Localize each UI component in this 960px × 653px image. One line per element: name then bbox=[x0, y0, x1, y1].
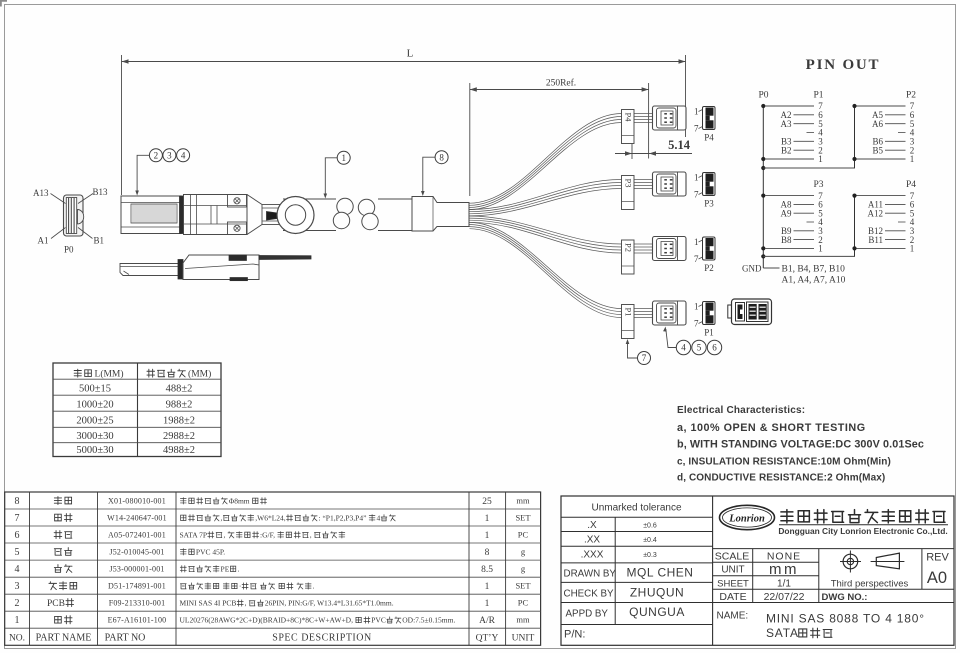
svg-text:P3: P3 bbox=[704, 199, 714, 209]
mini SAS connector screw tab bottom bbox=[228, 222, 247, 235]
svg-text:7: 7 bbox=[642, 353, 647, 363]
SATA connector P4 top view bbox=[653, 106, 687, 130]
mini SAS connector dark separator bbox=[180, 196, 184, 234]
pinout P1 pin1 wire bbox=[765, 158, 814, 160]
latch view top grip bbox=[229, 255, 247, 261]
svg-text:B11: B11 bbox=[868, 235, 883, 245]
svg-text:MQL CHEN: MQL CHEN bbox=[627, 566, 694, 580]
svg-text:7: 7 bbox=[694, 254, 699, 264]
dimension L line with arrows bbox=[122, 61, 686, 63]
svg-text:NAME:: NAME: bbox=[717, 611, 749, 622]
svg-text:.XX: .XX bbox=[584, 535, 600, 546]
svg-text:1: 1 bbox=[818, 154, 823, 164]
svg-text:SPEC DESCRIPTION: SPEC DESCRIPTION bbox=[272, 633, 371, 644]
svg-text:8: 8 bbox=[15, 496, 20, 507]
callout balloon 6 bbox=[707, 340, 721, 354]
svg-text:,: , bbox=[223, 531, 225, 540]
callout balloon 2 bbox=[149, 149, 162, 162]
SATA plug front view detail bbox=[728, 305, 733, 318]
svg-text:,: , bbox=[221, 514, 223, 523]
svg-text:PC: PC bbox=[518, 530, 529, 540]
svg-text:NO.: NO. bbox=[9, 634, 25, 644]
svg-text:OD:7.5±0.15mm.: OD:7.5±0.15mm. bbox=[402, 616, 455, 625]
svg-text:PIN OUT: PIN OUT bbox=[806, 57, 881, 73]
pinout P2 pin7 wire bbox=[857, 105, 906, 107]
length table frame bbox=[53, 363, 221, 457]
svg-text:4988±2: 4988±2 bbox=[163, 445, 195, 456]
svg-text:8: 8 bbox=[485, 548, 490, 558]
callout balloon 7 bbox=[638, 352, 651, 365]
marker flag P4 bbox=[622, 110, 635, 144]
pinout GND tie wire bbox=[763, 267, 779, 269]
dimension 250Ref extension line left bbox=[469, 83, 471, 196]
svg-text:A05-072401-001: A05-072401-001 bbox=[108, 531, 166, 540]
connector P0 pin A13 leader bbox=[51, 194, 66, 204]
svg-text:A0: A0 bbox=[927, 569, 947, 587]
pinout P1 pin7 wire bbox=[765, 105, 814, 107]
mini SAS connector screw tab top bbox=[228, 195, 247, 208]
svg-text:1: 1 bbox=[694, 173, 699, 183]
svg-text:P2: P2 bbox=[704, 263, 714, 273]
svg-text::G/F,: :G/F, bbox=[260, 531, 275, 540]
pinout P4 pin1 wire bbox=[857, 247, 906, 249]
cable break symbol bbox=[336, 194, 378, 235]
svg-text:±0.4: ±0.4 bbox=[643, 537, 657, 544]
svg-text:B1: B1 bbox=[94, 236, 105, 246]
svg-text:B5: B5 bbox=[872, 145, 883, 155]
svg-text:Dongguan City Lonrion Electron: Dongguan City Lonrion Electronic Co.,Ltd… bbox=[778, 526, 947, 536]
svg-text:A1, A4, A7, A10: A1, A4, A7, A10 bbox=[782, 275, 846, 285]
svg-text:DATE: DATE bbox=[719, 591, 746, 603]
pinout junction dots on P0 bus bbox=[761, 104, 765, 108]
svg-text:5000±30: 5000±30 bbox=[76, 445, 113, 456]
callout balloon 4 bbox=[177, 149, 190, 162]
svg-text:1: 1 bbox=[485, 514, 490, 524]
svg-text:MINI SAS 8088 TO 4 180°: MINI SAS 8088 TO 4 180° bbox=[766, 612, 925, 626]
svg-text:.XXX: .XXX bbox=[581, 550, 604, 561]
svg-text:MINI SAS 4I PCB: MINI SAS 4I PCB bbox=[180, 599, 237, 608]
callout leader for item 7 bbox=[628, 341, 638, 358]
callout leader for items 2 3 4 bbox=[137, 155, 149, 192]
svg-text:Electrical Characteristics:: Electrical Characteristics: bbox=[677, 405, 805, 416]
pinout P2 pin4 stub bbox=[898, 132, 906, 134]
svg-text:QUNGUA: QUNGUA bbox=[629, 605, 685, 619]
svg-text:X01-080010-001: X01-080010-001 bbox=[108, 497, 166, 506]
svg-text:A9: A9 bbox=[781, 208, 792, 218]
latch view bottom grip bbox=[230, 278, 248, 281]
svg-text:P1: P1 bbox=[704, 328, 714, 338]
callout balloon 3 bbox=[163, 149, 176, 162]
svg-text:A6: A6 bbox=[872, 119, 883, 129]
SATA connector P4 end view bbox=[703, 107, 716, 130]
pinout net tie line P0 to P2 bus bbox=[763, 159, 854, 168]
svg-text:2: 2 bbox=[15, 598, 20, 609]
svg-text:26PIN, PIN:G/F, W13.4*L31.65*T: 26PIN, PIN:G/F, W13.4*L31.65*T1.0mm. bbox=[265, 599, 394, 608]
mini SAS connector contact hatch bbox=[131, 204, 177, 223]
mini SAS connector neck bbox=[262, 205, 284, 225]
svg-text:.: . bbox=[238, 565, 240, 574]
svg-text:P/N:: P/N: bbox=[564, 629, 585, 641]
svg-text:8.5: 8.5 bbox=[481, 565, 493, 575]
svg-text:UNIT: UNIT bbox=[512, 634, 535, 644]
callout leader for item 1 bbox=[325, 158, 337, 196]
pull tab strap bbox=[259, 256, 311, 260]
svg-text:P3: P3 bbox=[623, 179, 633, 188]
svg-text:W14-240647-001: W14-240647-001 bbox=[107, 514, 167, 523]
svg-text:D51-174891-001: D51-174891-001 bbox=[108, 582, 166, 591]
svg-text:c, INSULATION RESISTANCE:10M O: c, INSULATION RESISTANCE:10M Ohm(Min) bbox=[677, 457, 891, 468]
svg-text:mm: mm bbox=[516, 496, 530, 506]
svg-text:4: 4 bbox=[181, 150, 186, 160]
pull ring bbox=[277, 197, 314, 234]
latch lever bbox=[185, 264, 259, 272]
SATA connector P3 top view bbox=[653, 172, 687, 196]
svg-text:B1, B4, B7, B10: B1, B4, B7, B10 bbox=[782, 265, 846, 275]
svg-text:A12: A12 bbox=[868, 208, 884, 218]
svg-text:5: 5 bbox=[697, 343, 702, 353]
svg-text:E67-A16101-100: E67-A16101-100 bbox=[108, 616, 167, 625]
svg-text:Φ8mm: Φ8mm bbox=[229, 497, 250, 506]
svg-text:P4: P4 bbox=[704, 133, 714, 143]
svg-text:J52-010045-001: J52-010045-001 bbox=[109, 548, 164, 557]
svg-text:b, WITH STANDING VOLTAGE:DC 30: b, WITH STANDING VOLTAGE:DC 300V 0.01Sec bbox=[677, 439, 924, 451]
dimension L extension line right bbox=[685, 55, 687, 137]
svg-text:APPD BY: APPD BY bbox=[566, 609, 609, 620]
svg-text:·: · bbox=[239, 582, 242, 591]
marker flag P3 bbox=[622, 176, 635, 210]
svg-text:DRAWN BY: DRAWN BY bbox=[564, 569, 617, 580]
length table header cell 1 bbox=[74, 369, 81, 377]
svg-text:P1: P1 bbox=[623, 308, 633, 317]
svg-text:1: 1 bbox=[694, 107, 699, 117]
svg-text:mm: mm bbox=[769, 561, 799, 578]
svg-text:1988±2: 1988±2 bbox=[163, 416, 195, 427]
svg-text:P0: P0 bbox=[758, 91, 768, 101]
svg-text:ZHUQUN: ZHUQUN bbox=[630, 586, 684, 600]
latch view nose bbox=[120, 264, 179, 276]
svg-text:P4: P4 bbox=[623, 113, 633, 123]
dimension 250Ref extension line right bbox=[648, 83, 650, 159]
svg-text:,: , bbox=[310, 531, 312, 540]
mini SAS connector nose shell bbox=[121, 196, 181, 234]
svg-text:22/07/22: 22/07/22 bbox=[764, 591, 805, 603]
SATA connector P1 end view bbox=[703, 302, 716, 325]
svg-text:L: L bbox=[407, 48, 414, 60]
callout balloon 5 bbox=[692, 340, 706, 354]
svg-text:PE: PE bbox=[221, 565, 230, 574]
SATA connector P1 top view bbox=[653, 301, 687, 325]
svg-text:B8: B8 bbox=[781, 235, 792, 245]
pinout net tie line P0 to P4 bus bbox=[763, 248, 854, 256]
svg-text:2988±2: 2988±2 bbox=[163, 431, 195, 442]
dimension 250Ref line with arrows bbox=[470, 89, 649, 91]
svg-text:.X: .X bbox=[587, 520, 597, 531]
pinout P1 pin4 stub bbox=[807, 132, 815, 134]
dimension 5.14 extension line left bbox=[631, 144, 633, 159]
svg-text:SATA 7P: SATA 7P bbox=[180, 531, 208, 540]
svg-text:(MM): (MM) bbox=[188, 369, 211, 380]
svg-text:1: 1 bbox=[341, 153, 346, 163]
SATA connector P2 top view bbox=[653, 237, 687, 261]
svg-text:PART NAME: PART NAME bbox=[36, 633, 92, 644]
connector P0 face view body bbox=[64, 195, 84, 236]
svg-text:Lonrion: Lonrion bbox=[728, 514, 765, 525]
svg-text:4: 4 bbox=[15, 564, 20, 575]
marker flag P2 bbox=[622, 240, 635, 274]
svg-text:a, 100% OPEN & SHORT TESTING: a, 100% OPEN & SHORT TESTING bbox=[677, 422, 866, 434]
svg-text:: “P1,P2,P3,P4”: : “P1,P2,P3,P4” bbox=[318, 514, 366, 523]
cable jacket at connector bbox=[283, 198, 340, 200]
pull ring attachment wedge bbox=[267, 212, 278, 221]
latch view body bbox=[183, 255, 259, 280]
svg-text:1: 1 bbox=[694, 302, 699, 312]
svg-text:1: 1 bbox=[15, 615, 20, 626]
svg-text:J53-000001-001: J53-000001-001 bbox=[109, 565, 164, 574]
dimension 5.14 line with outside arrows bbox=[615, 153, 692, 155]
title block right grid bbox=[713, 548, 954, 550]
pinout net P4 bus bbox=[854, 196, 856, 257]
svg-text:6: 6 bbox=[15, 530, 20, 541]
svg-text:25: 25 bbox=[482, 497, 492, 507]
svg-text:P2: P2 bbox=[906, 91, 916, 101]
svg-text:QT’Y: QT’Y bbox=[476, 634, 499, 644]
svg-text:SET: SET bbox=[515, 581, 531, 591]
svg-text:1000±20: 1000±20 bbox=[76, 400, 113, 411]
svg-text:P2: P2 bbox=[623, 243, 633, 252]
svg-text:DWG NO.:: DWG NO.: bbox=[822, 592, 868, 603]
callout balloon 4b bbox=[676, 340, 690, 354]
svg-text:2000±25: 2000±25 bbox=[76, 416, 113, 427]
company name chinese bbox=[781, 510, 793, 523]
pinout net P2 bus bbox=[854, 106, 856, 168]
svg-text:Third perspectives: Third perspectives bbox=[831, 578, 909, 589]
svg-text:1/1: 1/1 bbox=[777, 579, 791, 590]
svg-text:PCB: PCB bbox=[47, 599, 65, 609]
svg-text:REV: REV bbox=[926, 552, 949, 564]
svg-text:PVC 45P.: PVC 45P. bbox=[196, 548, 225, 557]
svg-text:A3: A3 bbox=[781, 119, 792, 129]
cable jacket after ring bbox=[313, 198, 340, 200]
svg-text:5: 5 bbox=[15, 547, 20, 558]
SATA connector P2 end view bbox=[703, 237, 716, 260]
latch view dark separator bbox=[178, 260, 183, 280]
svg-text:7: 7 bbox=[694, 319, 699, 329]
svg-text:3000±30: 3000±30 bbox=[76, 431, 113, 442]
svg-text:P1: P1 bbox=[813, 91, 823, 101]
svg-text:3: 3 bbox=[15, 581, 20, 592]
wire bundle to P3 bbox=[470, 180, 655, 210]
title block frame bbox=[561, 496, 954, 645]
svg-text:PC: PC bbox=[518, 598, 529, 608]
svg-text:B13: B13 bbox=[93, 187, 109, 197]
svg-text:7: 7 bbox=[15, 513, 20, 524]
svg-text:F09-213310-001: F09-213310-001 bbox=[109, 599, 166, 608]
svg-text:±0.6: ±0.6 bbox=[643, 523, 657, 530]
svg-text:1: 1 bbox=[694, 237, 699, 247]
svg-text:1: 1 bbox=[485, 582, 490, 592]
svg-text:250Ref.: 250Ref. bbox=[546, 78, 576, 89]
svg-text:1: 1 bbox=[485, 599, 490, 609]
pinout P3 pin1 wire bbox=[765, 247, 814, 249]
svg-text:A13: A13 bbox=[33, 188, 49, 198]
svg-text:PART NO: PART NO bbox=[105, 633, 146, 644]
connector P0 pin A1 leader bbox=[51, 228, 66, 239]
svg-text:B2: B2 bbox=[781, 145, 792, 155]
svg-text:988±2: 988±2 bbox=[166, 400, 193, 411]
svg-text:SCALE: SCALE bbox=[715, 551, 749, 563]
pinout net P0 bus bbox=[762, 106, 764, 268]
svg-text:±0.3: ±0.3 bbox=[643, 552, 657, 559]
svg-text:P0: P0 bbox=[64, 245, 74, 255]
third angle projection symbol bbox=[843, 554, 858, 569]
svg-text:1: 1 bbox=[910, 154, 915, 164]
svg-text:500±15: 500±15 bbox=[79, 384, 111, 395]
svg-text:4: 4 bbox=[376, 514, 380, 523]
wire bundle to P2 bbox=[470, 216, 655, 244]
pinout P4 pin4 stub bbox=[898, 221, 906, 223]
svg-text:4: 4 bbox=[681, 343, 686, 353]
length table header cell 2 bbox=[147, 369, 155, 377]
svg-text:SET: SET bbox=[515, 513, 531, 523]
svg-text:CHECK BY: CHECK BY bbox=[564, 589, 615, 600]
svg-text:A/R: A/R bbox=[479, 616, 496, 626]
svg-text:UL20276(28AWG*2C+D)(BRAID+8C)*: UL20276(28AWG*2C+D)(BRAID+8C)*8C+W+AW+D, bbox=[180, 616, 354, 625]
svg-text:1: 1 bbox=[485, 531, 490, 541]
callout leader for item 8 bbox=[423, 157, 435, 193]
wire bundle to P1 bbox=[470, 222, 655, 308]
svg-text:P4: P4 bbox=[906, 180, 916, 190]
svg-text:PVC: PVC bbox=[371, 616, 386, 625]
svg-text:2: 2 bbox=[154, 150, 159, 160]
svg-text:L(MM): L(MM) bbox=[95, 369, 124, 380]
svg-text:,: , bbox=[245, 599, 247, 608]
svg-text:P3: P3 bbox=[813, 180, 823, 190]
svg-text:.: . bbox=[313, 582, 315, 591]
pinout P4 pin7 wire bbox=[857, 195, 906, 197]
mini SAS connector body shell bbox=[184, 195, 248, 235]
svg-text:7: 7 bbox=[694, 190, 699, 200]
pinout P2 pin1 wire bbox=[857, 158, 906, 160]
svg-text:,W6*L24,: ,W6*L24, bbox=[255, 514, 286, 523]
mini SAS connector taper bbox=[247, 195, 262, 205]
heat shrink sleeve bbox=[412, 197, 469, 232]
svg-text:1: 1 bbox=[818, 244, 823, 254]
callout leader for items 4 5 6 bbox=[666, 329, 676, 348]
svg-text:A1: A1 bbox=[38, 236, 49, 246]
svg-text:mm: mm bbox=[516, 615, 530, 625]
svg-text:488±2: 488±2 bbox=[166, 384, 193, 395]
svg-text:Unmarked tolerance: Unmarked tolerance bbox=[591, 503, 681, 514]
svg-text:7: 7 bbox=[694, 124, 699, 134]
svg-text:1: 1 bbox=[910, 244, 915, 254]
svg-text:5.14: 5.14 bbox=[668, 138, 691, 152]
BOM table frame bbox=[5, 492, 541, 645]
svg-text:6: 6 bbox=[712, 343, 717, 353]
company logo ellipse bbox=[720, 505, 775, 529]
wire bundle to P4 bbox=[470, 114, 655, 204]
pinout P3 pin7 wire bbox=[765, 195, 814, 197]
svg-text:UNIT: UNIT bbox=[721, 565, 744, 576]
svg-text:3: 3 bbox=[167, 150, 172, 160]
svg-text:SHEET: SHEET bbox=[717, 579, 749, 590]
svg-text:d, CONDUCTIVE RESISTANCE:2 Ohm: d, CONDUCTIVE RESISTANCE:2 Ohm(Max) bbox=[677, 473, 885, 484]
dimension L extension line left bbox=[121, 55, 123, 195]
pinout P3 pin4 stub bbox=[807, 221, 815, 223]
connector P0 pin B1 leader bbox=[78, 228, 93, 239]
svg-text:GND: GND bbox=[742, 263, 762, 273]
callout balloon 1 bbox=[337, 151, 350, 164]
SATA connector P3 end view bbox=[703, 173, 716, 196]
svg-text:8: 8 bbox=[439, 152, 444, 162]
frustum symbol bbox=[876, 553, 899, 569]
svg-text:SATA: SATA bbox=[766, 626, 799, 640]
connector P0 pin B13 leader bbox=[78, 194, 93, 204]
callout balloon 8 bbox=[435, 151, 448, 164]
marker flag P1 bbox=[622, 305, 635, 339]
